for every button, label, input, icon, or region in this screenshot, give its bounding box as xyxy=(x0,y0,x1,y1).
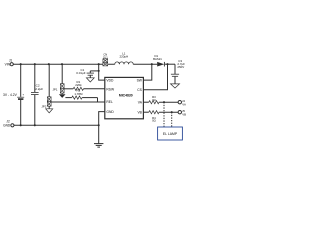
wire: drop to main ground xyxy=(98,125,100,143)
svg-text:GND: GND xyxy=(106,110,114,114)
node: rail junction to JP1 xyxy=(61,63,63,65)
wire: R1 to RSW pin xyxy=(84,88,105,90)
wire: battery branch from rail xyxy=(20,64,22,97)
wire: VB pin stub xyxy=(143,111,148,113)
svg-text:REL: REL xyxy=(106,100,113,104)
svg-text:SW: SW xyxy=(137,78,143,82)
jumper JP1 (3-pin header) xyxy=(60,84,64,89)
node: ground rail junction xyxy=(98,124,100,126)
svg-text:JU1: JU1 xyxy=(103,55,108,59)
svg-text:GND: GND xyxy=(3,124,11,128)
node: rail junction to battery xyxy=(20,63,22,65)
node: rail junction to C2 xyxy=(34,63,36,65)
wire: C2 to ground rail xyxy=(34,95,36,125)
capacitor C3 xyxy=(171,73,179,75)
resistor R3 xyxy=(149,101,159,104)
wire: REL line from JP2 tap to REL pin xyxy=(51,101,105,103)
node: battery on ground rail xyxy=(20,124,22,126)
wire: bottom ground rail xyxy=(14,124,99,126)
ground below JP1 (filled arrow) xyxy=(59,94,66,98)
wire: dashed VA to lamp xyxy=(163,102,165,127)
svg-text:1.78M: 1.78M xyxy=(74,92,83,96)
svg-text:220k: 220k xyxy=(75,83,82,87)
connector J1 (VIN input) xyxy=(10,63,13,66)
resistor R1 xyxy=(73,87,83,90)
wire: C1 branch from rail xyxy=(98,64,100,71)
svg-text:220µH: 220µH xyxy=(119,55,128,59)
wire: GND pin to ground rail xyxy=(99,112,105,126)
EL lamp box xyxy=(158,127,183,140)
svg-text:JP2: JP2 xyxy=(41,104,46,108)
capacitor C1 xyxy=(89,71,91,73)
ground: main (3 bars) xyxy=(94,143,103,145)
wire: JP2 branch from rail xyxy=(48,64,50,97)
node: C1/VDD tee xyxy=(98,70,100,72)
svg-text:EL LAMP: EL LAMP xyxy=(163,132,178,136)
wire: C3 branch xyxy=(174,64,176,74)
wire: tee to C1 xyxy=(90,70,98,72)
svg-text:VA: VA xyxy=(182,103,186,107)
svg-text:VDD: VDD xyxy=(106,78,114,82)
svg-text:VB: VB xyxy=(182,113,186,117)
wire: main VIN rail xyxy=(13,63,114,65)
svg-text:JP1: JP1 xyxy=(52,87,57,91)
wire: RSW line from JP1 tap xyxy=(64,88,73,90)
wire: CS feedback drop to CS pin xyxy=(143,64,167,90)
wire: VDD hook from tee to VDD pin xyxy=(99,71,105,80)
capacitor C2 xyxy=(31,91,39,93)
node: rail junction to JP2 xyxy=(48,63,50,65)
node: SW junction on rail xyxy=(151,63,153,65)
wire: VA pin stub xyxy=(143,101,148,103)
node: VA dashed tap xyxy=(163,101,165,103)
wire: R4 to J5 xyxy=(159,111,178,113)
node: CS junction after diode xyxy=(166,63,168,65)
svg-text:250V: 250V xyxy=(177,65,184,69)
wire: JP1 branch from rail xyxy=(61,64,63,84)
svg-text:2.2µF: 2.2µF xyxy=(35,87,43,91)
wire: R3 to J4 xyxy=(159,101,178,103)
wire: rail from inductor to diode anode xyxy=(133,63,157,65)
jumper JP2 (3-pin header) xyxy=(47,97,51,102)
wire: battery to ground rail xyxy=(20,100,22,126)
svg-text:RSW: RSW xyxy=(106,87,115,91)
battery BT1 (Li cell) xyxy=(17,96,24,98)
wire: C2 branch from rail xyxy=(34,64,36,92)
resistor R4 xyxy=(149,111,159,114)
node: rail junction to C1/VDD xyxy=(98,63,100,65)
connector J2 (GND) xyxy=(11,124,14,127)
node: C2 on ground rail xyxy=(34,124,36,126)
svg-text:3V - 4.2V: 3V - 4.2V xyxy=(3,93,18,97)
connector J4 (VA output) xyxy=(178,101,181,104)
svg-text:MIC4830: MIC4830 xyxy=(119,94,133,98)
node: VB dashed tap xyxy=(171,111,173,113)
ground below JP2 xyxy=(46,109,53,113)
svg-text:0.01µF: 0.01µF xyxy=(76,71,85,75)
inductor L1 xyxy=(115,62,133,64)
resistor R2 (hop above REL line) xyxy=(65,97,71,99)
ground below C3 xyxy=(171,84,180,88)
ground below C1 xyxy=(86,78,94,82)
svg-text:CS: CS xyxy=(137,88,142,92)
wire: diode cathode to C3 branch xyxy=(165,63,175,65)
svg-text:0Ω: 0Ω xyxy=(152,119,156,123)
wire: dashed VB to lamp xyxy=(171,112,173,127)
connector J5 (VB output) xyxy=(178,111,181,114)
diode D1 xyxy=(157,62,164,67)
svg-text:BAS21: BAS21 xyxy=(153,57,162,61)
connector CN (jumper on rail) xyxy=(103,59,108,63)
IC U1 MIC4830 body xyxy=(105,77,144,118)
wire: rail down to SW pin xyxy=(143,64,151,80)
svg-text:0Ω: 0Ω xyxy=(152,98,156,102)
svg-text:VIN: VIN xyxy=(5,63,11,67)
svg-text:+: + xyxy=(23,92,25,96)
